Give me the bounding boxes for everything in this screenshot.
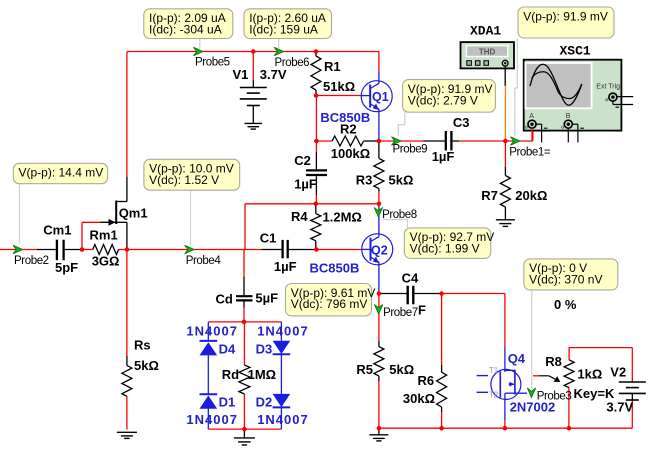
svg-text:Probe7: Probe7 xyxy=(383,307,418,319)
svg-text:T1: T1 xyxy=(489,366,499,375)
svg-text:1N4007: 1N4007 xyxy=(257,324,309,339)
svg-text:Probe6: Probe6 xyxy=(275,57,310,69)
svg-text:Probe9: Probe9 xyxy=(393,144,428,156)
svg-text:B: B xyxy=(566,113,571,120)
svg-text:C3: C3 xyxy=(453,115,470,130)
svg-text:F: F xyxy=(418,302,426,317)
svg-text:1µF: 1µF xyxy=(432,149,455,164)
svg-text:BC850B: BC850B xyxy=(320,110,370,125)
svg-text:Cd: Cd xyxy=(216,292,233,307)
svg-text:R1: R1 xyxy=(324,59,341,74)
svg-text:BC850B: BC850B xyxy=(310,260,360,275)
svg-text:R5: R5 xyxy=(356,362,373,377)
svg-text:51kΩ: 51kΩ xyxy=(323,79,355,94)
svg-text:R8: R8 xyxy=(545,354,562,369)
svg-text:V(p-p): 91.9 mV: V(p-p): 91.9 mV xyxy=(523,9,608,23)
svg-text:D2: D2 xyxy=(256,394,273,409)
svg-text:A: A xyxy=(529,113,534,120)
svg-text:1N4007: 1N4007 xyxy=(186,412,238,427)
svg-text:THD: THD xyxy=(479,48,496,57)
svg-text:Cm1: Cm1 xyxy=(43,222,71,237)
svg-text:20kΩ: 20kΩ xyxy=(515,188,547,203)
svg-text:I(dc): 159 uA: I(dc): 159 uA xyxy=(249,23,318,37)
svg-text:D1: D1 xyxy=(219,394,236,409)
svg-text:3.7V: 3.7V xyxy=(260,67,287,82)
svg-text:R7: R7 xyxy=(481,188,498,203)
svg-text:V1: V1 xyxy=(233,67,249,82)
svg-text:Probe3: Probe3 xyxy=(537,391,572,403)
svg-text:R4: R4 xyxy=(291,209,308,224)
svg-text:Rd: Rd xyxy=(222,367,239,382)
svg-text:0 %: 0 % xyxy=(554,297,577,312)
svg-text:Ext Trig: Ext Trig xyxy=(596,83,620,90)
svg-text:V(dc): 796 mV: V(dc): 796 mV xyxy=(291,297,368,311)
svg-text:5kΩ: 5kΩ xyxy=(389,172,414,187)
svg-text:3GΩ: 3GΩ xyxy=(92,253,120,268)
svg-text:Q1: Q1 xyxy=(372,90,389,104)
svg-text:Q2: Q2 xyxy=(371,244,388,258)
svg-text:I(dc): -304 uA: I(dc): -304 uA xyxy=(149,23,222,37)
svg-text:1kΩ: 1kΩ xyxy=(577,367,602,382)
svg-text:V(p-p): 14.4 mV: V(p-p): 14.4 mV xyxy=(19,166,104,180)
svg-text:Probe2: Probe2 xyxy=(14,255,49,267)
svg-text:5pF: 5pF xyxy=(55,260,78,275)
svg-text:Q4: Q4 xyxy=(508,351,526,366)
svg-text:T2: T2 xyxy=(489,391,499,400)
svg-text:Probe1=: Probe1= xyxy=(509,147,551,159)
svg-text:Probe8: Probe8 xyxy=(382,209,417,221)
svg-text:Probe5: Probe5 xyxy=(195,57,230,69)
svg-text:Rs: Rs xyxy=(134,338,151,353)
svg-text:C2: C2 xyxy=(294,153,311,168)
svg-text:1N4007: 1N4007 xyxy=(186,324,238,339)
svg-text:C1: C1 xyxy=(260,231,277,246)
svg-text:V(dc): 1.52 V: V(dc): 1.52 V xyxy=(149,173,219,187)
svg-text:1µF: 1µF xyxy=(294,176,317,191)
svg-text:3.7V: 3.7V xyxy=(606,399,633,414)
svg-text:XDA1: XDA1 xyxy=(470,24,501,39)
svg-text:D4: D4 xyxy=(219,341,236,356)
svg-text:1MΩ: 1MΩ xyxy=(248,367,276,382)
svg-text:Probe4: Probe4 xyxy=(186,255,222,267)
svg-text:5µF: 5µF xyxy=(255,290,278,305)
svg-text:1N4007: 1N4007 xyxy=(257,412,309,427)
svg-text:1.2MΩ: 1.2MΩ xyxy=(323,209,362,224)
svg-text:V(dc): 1.99 V: V(dc): 1.99 V xyxy=(410,242,480,256)
svg-text:30kΩ: 30kΩ xyxy=(403,391,435,406)
svg-text:V(dc): 370 nV: V(dc): 370 nV xyxy=(529,273,602,287)
svg-text:5kΩ: 5kΩ xyxy=(134,358,159,373)
svg-text:Rm1: Rm1 xyxy=(90,228,118,243)
svg-text:5kΩ: 5kΩ xyxy=(389,362,414,377)
svg-text:R3: R3 xyxy=(356,172,373,187)
svg-text:V2: V2 xyxy=(610,365,626,380)
svg-text:V(dc): 2.79 V: V(dc): 2.79 V xyxy=(408,93,478,107)
svg-text:XSC1: XSC1 xyxy=(560,43,591,58)
svg-text:Qm1: Qm1 xyxy=(119,205,148,220)
svg-text:D3: D3 xyxy=(256,341,273,356)
svg-text:R6: R6 xyxy=(418,373,435,388)
svg-text:1µF: 1µF xyxy=(274,259,297,274)
svg-text:100kΩ: 100kΩ xyxy=(331,146,370,161)
svg-text:C4: C4 xyxy=(402,271,419,286)
